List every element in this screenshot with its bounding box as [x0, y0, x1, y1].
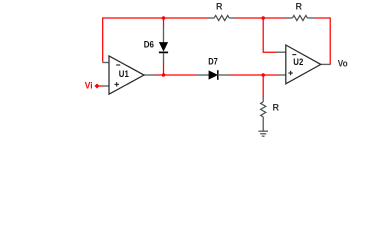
wire: U1 inverting input stub (gray) [102, 62, 112, 64]
wire: D7 cathode to U2 noninverting node (red) [230, 74, 277, 76]
ground [258, 131, 268, 136]
wire: U2 output stub (gray) [321, 63, 331, 65]
resistor R3 (vertical) [261, 97, 266, 131]
wire: Vi red stub [97, 85, 103, 87]
svg-text:D7: D7 [208, 57, 218, 67]
diode D7 [196, 70, 231, 80]
svg-text:Vo: Vo [338, 58, 348, 68]
wire: U1 output stub (gray) [144, 74, 157, 76]
wire: top net between R1 and R2 (red) [236, 17, 285, 19]
node junction dot at U2 plus / R3 [261, 73, 265, 77]
wire: U1 output to D7 anode (red) [156, 74, 196, 76]
node junction dot at U1 output [162, 73, 166, 77]
input terminal Vi diamond [95, 84, 100, 89]
svg-text:U2: U2 [293, 57, 303, 67]
node junction dot at top R1/R2 [261, 16, 265, 20]
svg-text:D6: D6 [144, 40, 154, 50]
wire: U1 inverting input up and across top (red) [103, 18, 208, 62]
wire: U2 noninverting input stub (gray) [277, 74, 290, 76]
wire: R2 right corner down to U2 output (red) [316, 18, 331, 64]
diode D6 [159, 27, 168, 63]
svg-text:Vi: Vi [85, 81, 93, 91]
op-amp U1 [109, 56, 144, 94]
wire: D6 top red stub [163, 17, 165, 27]
wire: top node down to U2 inverting input (red) [263, 17, 276, 52]
node junction dot at D6 top [162, 16, 166, 20]
wire: U1 noninverting input stub (gray) [103, 85, 113, 87]
svg-text:U1: U1 [119, 69, 129, 79]
svg-text:R: R [296, 1, 303, 11]
wire: D6 bottom red stub [163, 62, 165, 75]
resistor R1 [208, 15, 236, 20]
wire: node down to R3 (red) [262, 75, 264, 97]
svg-text:R: R [216, 1, 223, 11]
wire: U2 inverting input stub (gray) [275, 51, 289, 53]
svg-text:R: R [273, 102, 280, 112]
op-amp U2 [286, 45, 321, 84]
resistor R2 [285, 15, 316, 20]
